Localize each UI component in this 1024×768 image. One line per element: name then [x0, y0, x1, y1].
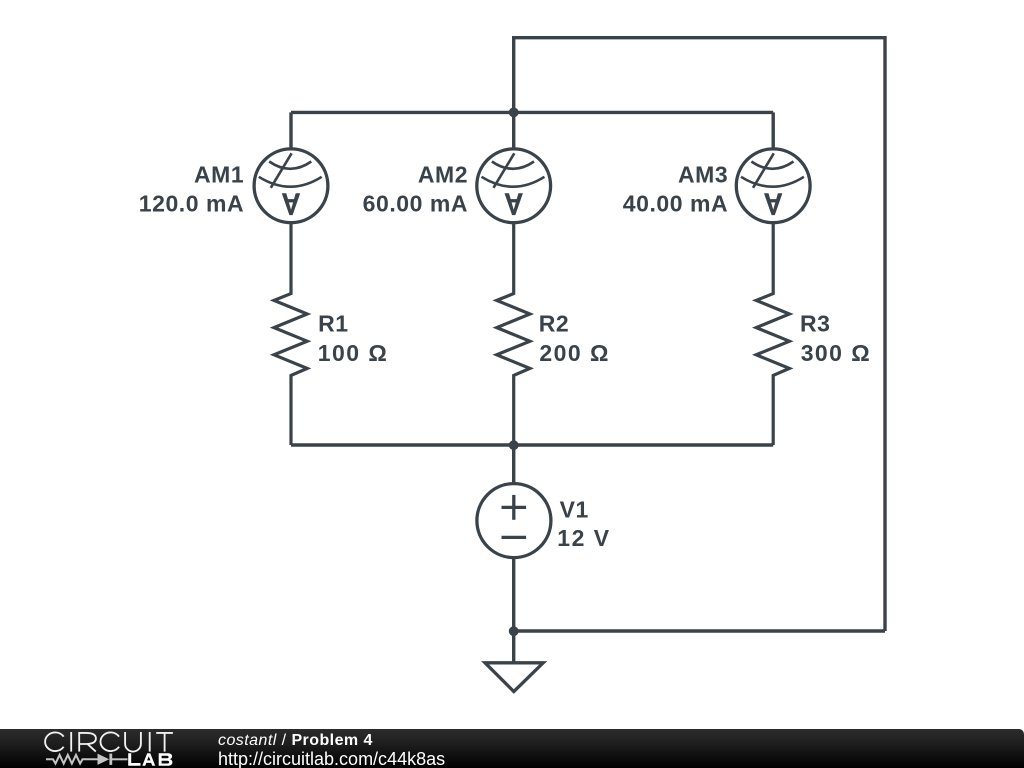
svg-text:200 Ω: 200 Ω: [539, 340, 609, 366]
svg-text:R3: R3: [800, 310, 831, 336]
svg-text:40.00 mA: 40.00 mA: [623, 191, 728, 217]
svg-text:R2: R2: [539, 310, 570, 336]
svg-text:12 V: 12 V: [557, 525, 610, 551]
svg-text:AM3: AM3: [678, 161, 728, 187]
svg-text:R1: R1: [318, 310, 349, 336]
svg-text:60.00 mA: 60.00 mA: [363, 191, 468, 217]
svg-text:V1: V1: [560, 497, 589, 523]
svg-text:120.0 mA: 120.0 mA: [139, 191, 244, 217]
svg-text:AM2: AM2: [418, 161, 468, 187]
svg-text:AM1: AM1: [194, 161, 244, 187]
svg-text:300 Ω: 300 Ω: [801, 340, 871, 366]
svg-text:100 Ω: 100 Ω: [318, 340, 388, 366]
